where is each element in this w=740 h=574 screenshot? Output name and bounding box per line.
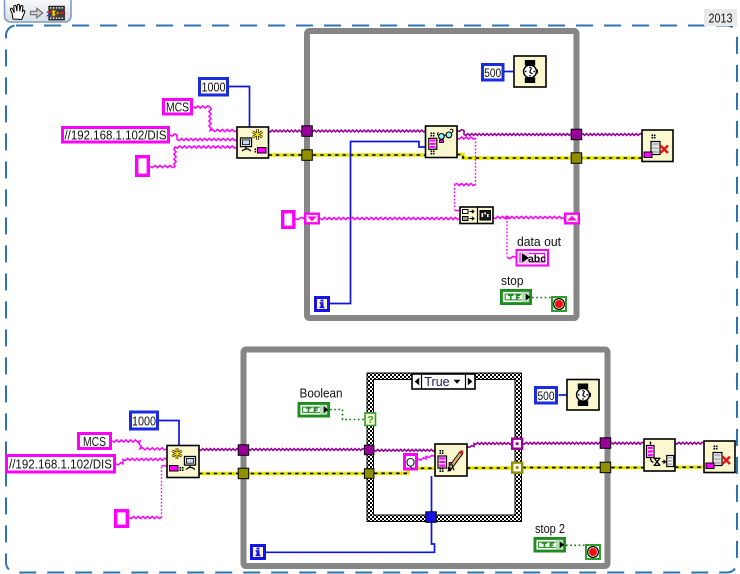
svg-text:1000: 1000 — [202, 80, 226, 95]
svg-text://192.168.1.102/DIS: //192.168.1.102/DIS — [9, 458, 112, 472]
svg-text:2013: 2013 — [709, 12, 733, 26]
svg-text:1000: 1000 — [132, 414, 156, 429]
svg-text://192.168.1.102/DIS: //192.168.1.102/DIS — [65, 129, 167, 143]
svg-text:abc: abc — [528, 253, 546, 265]
svg-text:stop: stop — [501, 274, 524, 288]
svg-text:MCS: MCS — [166, 101, 189, 115]
svg-text:data out: data out — [517, 235, 562, 249]
svg-text:stop 2: stop 2 — [535, 522, 565, 536]
svg-text:500: 500 — [484, 68, 501, 80]
svg-text:True: True — [424, 375, 449, 389]
svg-text:MCS: MCS — [83, 435, 106, 449]
svg-text:500: 500 — [538, 391, 555, 403]
svg-text:Boolean: Boolean — [300, 387, 343, 401]
svg-text:?: ? — [367, 414, 373, 426]
svg-text:Q: Q — [406, 456, 415, 470]
